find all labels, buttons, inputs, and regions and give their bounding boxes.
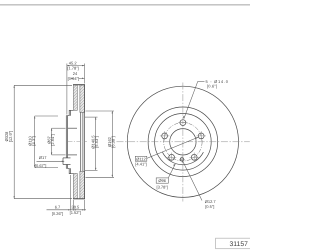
svg-text:[0.94"]: [0.94"] <box>68 76 79 81</box>
svg-text:Ø96: Ø96 <box>158 178 166 183</box>
svg-text:38.5: 38.5 <box>71 204 80 209</box>
svg-text:[1.52"]: [1.52"] <box>70 210 81 215</box>
svg-text:[6.38"]: [6.38"] <box>111 136 116 147</box>
svg-text:[1.78"]: [1.78"] <box>67 65 78 70</box>
svg-text:[4.41"]: [4.41"] <box>135 162 146 167</box>
svg-text:[2.64"]: [2.64"] <box>50 134 55 145</box>
svg-text:[0.26"]: [0.26"] <box>52 211 63 216</box>
svg-text:31157: 31157 <box>229 241 248 248</box>
svg-text:[0.67"]: [0.67"] <box>35 163 46 168</box>
svg-text:[0.5"]: [0.5"] <box>205 204 214 209</box>
svg-text:[5.53"]: [5.53"] <box>94 136 99 147</box>
svg-text:[3.78"]: [3.78"] <box>156 184 167 189</box>
svg-text:[0.6"]: [0.6"] <box>207 84 217 89</box>
svg-text:6.7: 6.7 <box>55 204 61 209</box>
svg-text:Ø17: Ø17 <box>39 155 47 160</box>
svg-text:[12.9"]: [12.9"] <box>8 131 13 142</box>
svg-text:[4.3"]: [4.3"] <box>31 136 36 145</box>
